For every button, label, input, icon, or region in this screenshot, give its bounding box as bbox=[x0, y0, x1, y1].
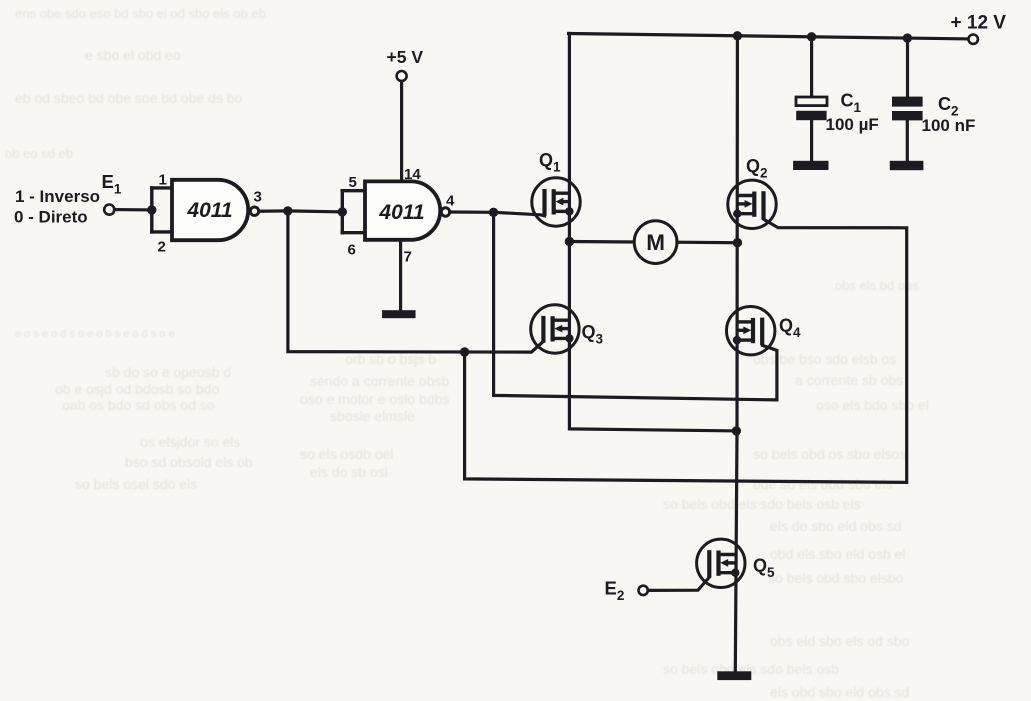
NAND gate U1 body bbox=[172, 180, 248, 240]
svg-text:bde so els obd sbo els: bde so els obd sbo els bbox=[753, 476, 892, 492]
svg-text:os elsjdor so els: os elsjdor so els bbox=[140, 434, 240, 450]
svg-text:so bels osel sdo els: so bels osel sdo els bbox=[75, 476, 197, 492]
svg-text:ob e osjd od bdosb so bdo: ob e osjd od bdosb so bdo bbox=[55, 381, 219, 397]
transistor Q4 bbox=[727, 307, 775, 355]
svg-text:14: 14 bbox=[404, 166, 421, 183]
+12V terminal bbox=[969, 35, 978, 44]
svg-text:2: 2 bbox=[158, 239, 166, 256]
svg-text:M: M bbox=[646, 230, 665, 255]
svg-text:4011: 4011 bbox=[378, 201, 424, 224]
wire U2-out branch down to Q4 gate bbox=[494, 212, 777, 400]
svg-text:so bels obd els sdo bels osb e: so bels obd els sdo bels osb els bbox=[663, 496, 861, 512]
ground (U2 pin 7) bbox=[382, 310, 416, 318]
svg-text:1 - Inverso: 1 - Inverso bbox=[15, 187, 100, 206]
svg-text:100 µF: 100 µF bbox=[826, 115, 879, 134]
NAND gate U2 body bbox=[365, 181, 440, 239]
wire U2 output to Q1 gate bbox=[450, 212, 545, 216]
motor M bbox=[634, 221, 677, 264]
wire motor left bbox=[569, 240, 634, 244]
svg-text:a corrente sb obs: a corrente sb obs bbox=[795, 372, 903, 388]
+5V supply terminal bbox=[397, 71, 407, 81]
wire E2 to Q5 gate bbox=[648, 577, 709, 590]
svg-text:els do sbo eld obs sd: els do sbo eld obs sd bbox=[770, 518, 902, 534]
svg-text:oso els bdo sbo el: oso els bdo sbo el bbox=[816, 397, 929, 413]
wire U1-out branch down to Q3 gate bbox=[288, 211, 544, 352]
svg-text:4011: 4011 bbox=[186, 199, 232, 222]
svg-text:100 nF: 100 nF bbox=[922, 116, 976, 135]
node: rail / C2 bbox=[903, 33, 912, 42]
transistor Q3 bbox=[531, 305, 579, 353]
wire pin14 to +5V bbox=[400, 81, 403, 181]
svg-text:els do sb osl: els do sb osl bbox=[310, 464, 388, 480]
wire left bridge vertical (Q1 drain to Q3 source) bbox=[569, 34, 736, 431]
svg-text:eb od sbeo bd obe soe bd o: eb od sbeo bd obe soe bd obe ds bo bbox=[15, 90, 243, 106]
transistor Q1 bbox=[532, 178, 580, 226]
svg-text:bso sd obsold els ob: bso sd obsold els ob bbox=[125, 454, 253, 470]
svg-text:obd els sbo eld osb el: obd els sbo eld osb el bbox=[770, 546, 905, 562]
wire pin7 to ground bbox=[399, 240, 402, 311]
node: Q3 source joins right leg bbox=[732, 426, 741, 435]
ground (below Q5) bbox=[717, 671, 751, 680]
wire pin2 stub bbox=[152, 230, 173, 233]
ground (C1) bbox=[793, 161, 828, 170]
svg-text:sb do so e opeosb d: sb do so e opeosb d bbox=[105, 364, 231, 380]
svg-text:+ 12 V: + 12 V bbox=[951, 13, 1007, 34]
wire pin5 stub bbox=[342, 189, 365, 192]
wire pin1 stub bbox=[152, 186, 173, 189]
svg-text:3: 3 bbox=[254, 189, 262, 206]
svg-text:1: 1 bbox=[159, 172, 167, 189]
transistor Q5 bbox=[697, 539, 745, 587]
svg-text:sendo a corrente obsb: sendo a corrente obsb bbox=[310, 373, 450, 389]
node: bridge right midpoint bbox=[733, 238, 742, 247]
wire pin6 stub bbox=[342, 231, 365, 234]
node: rail / right bridge bbox=[733, 31, 742, 40]
NAND gate U2 output bubble bbox=[441, 208, 449, 216]
node: bridge left midpoint bbox=[565, 237, 574, 246]
svg-text:els obd sbo eld obs sd: els obd sbo eld obs sd bbox=[770, 684, 909, 700]
svg-text:sbosle elmsle: sbosle elmsle bbox=[330, 408, 415, 424]
svg-text:obs be bso sdo elsb os: obs be bso sdo elsb os bbox=[753, 351, 896, 367]
wire E1 to gate input bbox=[114, 208, 151, 211]
svg-text:e sbo el obd eo: e sbo el obd eo bbox=[85, 47, 181, 63]
+12V power rail bbox=[569, 34, 969, 39]
wire input bracket U2 bbox=[341, 191, 344, 233]
svg-text:0 - Direto: 0 - Direto bbox=[14, 208, 88, 227]
wire U1 out to U2 in bbox=[288, 211, 343, 212]
svg-text:e o s e o d s o e o b s e o d: e o s e o d s o e o b s e o d s o e bbox=[15, 328, 175, 340]
wire motor right bbox=[677, 241, 737, 245]
node: Q3/Q2 gate net junction bbox=[460, 347, 469, 356]
svg-text:+5 V: +5 V bbox=[387, 47, 424, 67]
node: U1 output junction bbox=[283, 206, 292, 215]
transistor Q2 bbox=[728, 180, 776, 228]
node: gate U1 input junction bbox=[147, 205, 156, 214]
node: gate U2 input junction bbox=[338, 207, 347, 216]
svg-text:so els osdb oel: so els osdb oel bbox=[300, 446, 393, 462]
svg-text:ens obe sdo eso bd sbo el: ens obe sdo eso bd sbo el od sbo els ob … bbox=[15, 6, 266, 21]
svg-text:oso e motor e oslo bdbs: oso e motor e oslo bdbs bbox=[300, 391, 449, 407]
svg-text:ob eo sd eb: ob eo sd eb bbox=[5, 146, 73, 161]
svg-text:obs eld sbo els od sbo: obs eld sbo els od sbo bbox=[770, 633, 910, 649]
input terminal E2 bbox=[639, 586, 648, 595]
svg-text:so bels obd sbo elsbo: so bels obd sbo elsbo bbox=[768, 570, 904, 586]
wire input bracket U1 bbox=[150, 188, 153, 232]
input terminal E1 bbox=[104, 205, 114, 215]
node: U2 output junction bbox=[489, 208, 498, 217]
svg-text:7: 7 bbox=[404, 249, 412, 266]
svg-text:4: 4 bbox=[446, 193, 455, 210]
wire right bridge vertical (rail to Q5 and ground) bbox=[735, 36, 737, 672]
ground (C2) bbox=[890, 161, 924, 170]
capacitor C1 (electrolytic) bbox=[810, 37, 813, 97]
svg-text:6: 6 bbox=[348, 242, 356, 259]
capacitor C2 (ceramic) bbox=[906, 38, 909, 97]
NAND gate U1 output bubble bbox=[250, 207, 258, 215]
svg-text:oab os bdo sd obs od so: oab os bdo sd obs od so bbox=[62, 397, 215, 413]
svg-text:5: 5 bbox=[349, 174, 357, 191]
node: rail / C1 bbox=[807, 32, 816, 41]
wire U1 output bbox=[259, 209, 288, 213]
wire gate net to Q2 gate (long loop) bbox=[465, 219, 907, 482]
svg-text:so bels obd os sbo elsos: so bels obd os sbo elsos bbox=[753, 446, 906, 462]
